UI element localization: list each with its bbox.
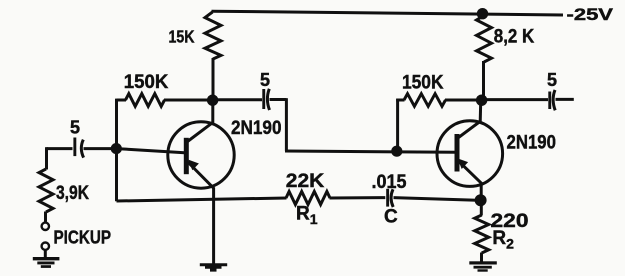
svg-text:2N190: 2N190 xyxy=(231,118,282,139)
svg-text:R1: R1 xyxy=(296,204,318,228)
svg-text:3,9K: 3,9K xyxy=(56,183,89,204)
svg-text:22K: 22K xyxy=(286,171,325,192)
svg-text:150K: 150K xyxy=(124,72,169,93)
svg-text:15K: 15K xyxy=(169,26,195,46)
svg-text:5: 5 xyxy=(547,70,557,90)
svg-text:-25V: -25V xyxy=(567,6,614,24)
svg-text:5: 5 xyxy=(70,117,80,137)
svg-text:2N190: 2N190 xyxy=(507,133,557,154)
svg-text:C: C xyxy=(384,207,398,228)
svg-text:.015: .015 xyxy=(372,172,407,193)
svg-text:150K: 150K xyxy=(402,73,444,94)
svg-text:8,2 K: 8,2 K xyxy=(494,27,535,48)
svg-text:5: 5 xyxy=(260,70,270,90)
svg-text:PICKUP: PICKUP xyxy=(54,226,112,247)
